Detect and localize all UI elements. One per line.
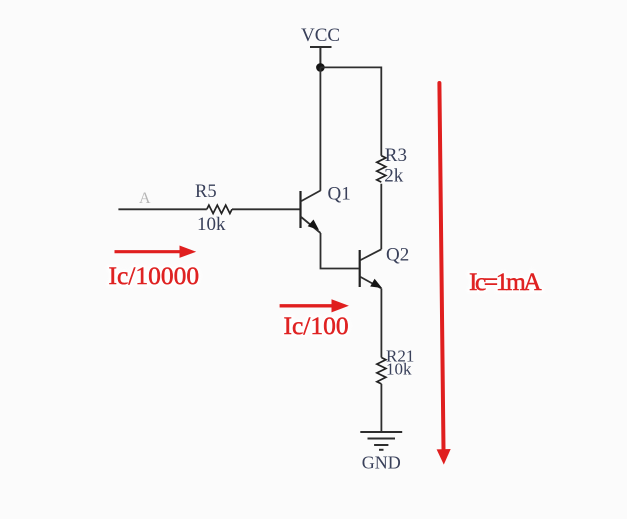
current arrow Ic/10000: [115, 246, 197, 258]
svg-text:Ic/100: Ic/100: [284, 311, 349, 340]
wire: Q2 emitter to R21: [380, 289, 382, 358]
wire: junction right and down to R3: [320, 67, 381, 155]
resistor R3: [377, 156, 386, 182]
svg-text:R5: R5: [195, 182, 217, 202]
svg-text:Q2: Q2: [386, 245, 409, 266]
svg-text:R3: R3: [385, 145, 407, 166]
svg-text:10k: 10k: [386, 360, 412, 379]
svg-text:A: A: [139, 190, 151, 207]
VCC power symbol: [310, 47, 332, 64]
svg-text:Ic=1mA: Ic=1mA: [469, 267, 542, 296]
wire: input A to R5: [118, 208, 206, 210]
svg-text:2k: 2k: [384, 165, 404, 186]
resistor R21: [377, 358, 386, 384]
svg-text:Q1: Q1: [328, 184, 351, 205]
label Ic/10000: [109, 261, 200, 290]
wire: Q1 emitter to Q2 base: [321, 233, 359, 269]
current arrow Ic/100: [280, 299, 349, 312]
ground: [360, 432, 402, 450]
wire: R5 to Q1 base: [232, 208, 300, 210]
transistor Q2: [360, 249, 382, 288]
current arrow Ic=1mA: [437, 83, 451, 465]
svg-text:GND: GND: [362, 453, 401, 473]
label Ic=1mA: [469, 267, 542, 296]
svg-text:10k: 10k: [197, 214, 226, 235]
wire: R21 to ground: [380, 384, 382, 432]
transistor Q1: [301, 191, 321, 234]
svg-text:VCC: VCC: [301, 25, 340, 46]
wire: junction down to Q1 collector: [319, 67, 321, 190]
junction dot: [316, 63, 325, 72]
resistor R5: [207, 205, 232, 213]
wire: R3 bottom to Q2 collector: [380, 184, 382, 250]
label Ic/100: [284, 311, 349, 340]
svg-text:Ic/10000: Ic/10000: [109, 261, 200, 290]
